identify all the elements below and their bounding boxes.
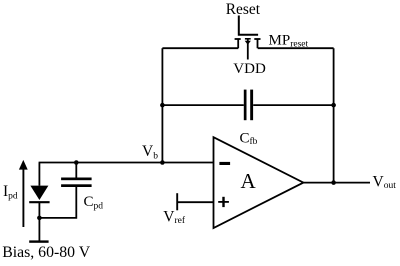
wire photodiode cathode column to bias [38,202,40,241]
source stem [237,39,239,48]
diode triangle [30,186,48,200]
diode cathode bar [29,201,49,203]
svg-text:VDD: VDD [233,61,266,77]
junction dot Cfb left [160,103,165,108]
current arrow Ipd [19,160,28,227]
drain stem [257,39,259,48]
op-amp plus sign [218,197,229,207]
wire Cpd top stem [75,163,77,178]
junction dot photodiode cathode [37,216,42,221]
wire transistor source side (top left horizontal) [162,47,238,49]
channel bulk contact bar [245,38,251,40]
photodiode D1 [29,186,49,203]
wire feedback cap right [253,104,333,106]
gate wire and gate bar of MPreset [239,16,258,35]
wire feedback cap left [162,104,243,106]
bulk arrow of MPreset pointing down to VDD [245,41,251,45]
capacitor Cfb [244,90,253,121]
op-amp A [214,137,304,228]
wire Vb column: input node up to reset loop [161,48,163,162]
wire Cpd bottom stem and return [39,187,76,218]
wire transistor drain side (top right horizontal) [258,47,334,49]
wire input net: photodiode top to op-amp inverting input [39,162,214,164]
svg-text:A: A [241,169,257,193]
junction dot output node [331,180,336,185]
bias ground bar [29,240,48,242]
junction dot Cfb right [331,103,336,108]
wire Vref to non-inverting input [177,201,213,203]
junction dot Vb node [160,160,165,165]
svg-text:Reset: Reset [226,1,261,18]
junction dot Cpd tap [74,160,79,165]
op-amp minus sign [219,162,230,165]
svg-text:Bias, 60-80 V: Bias, 60-80 V [2,244,91,261]
wire right vertical: drain down to output node [333,48,335,182]
bulk stem to VDD [247,39,249,60]
transistor MPreset [235,16,261,60]
channel source contact bar [235,38,241,40]
wire photodiode anode column [38,163,40,186]
wire output to Vout [303,182,370,184]
channel drain contact bar [254,38,260,40]
Vref terminal bar [176,193,178,210]
capacitor Cpd [61,178,92,188]
